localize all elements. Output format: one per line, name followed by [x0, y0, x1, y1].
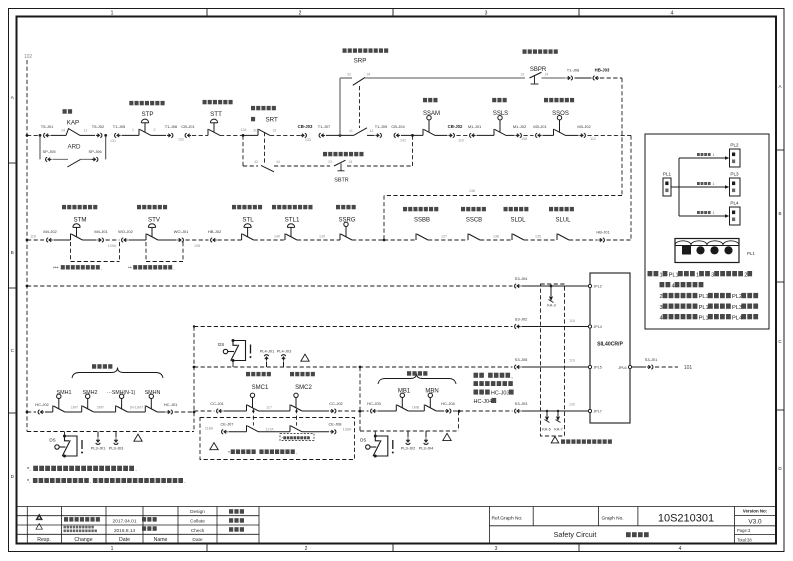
connector CB-J02 [448, 133, 454, 137]
svg-text:SSCB: SSCB [466, 218, 482, 224]
wire [326, 134, 354, 136]
connector WO-J02 [122, 238, 128, 242]
svg-text:SP-J05: SP-J05 [42, 149, 56, 154]
svg-text:CE-J07: CE-J07 [221, 421, 234, 426]
svg-text:Resp.: Resp. [37, 537, 51, 543]
svg-text:2MT: 2MT [97, 405, 105, 409]
svg-text:109A: 109A [108, 244, 117, 248]
svg-text:136: 136 [493, 235, 499, 239]
wire [378, 410, 397, 412]
wire row A entry [27, 134, 40, 136]
svg-text:1: 1 [713, 211, 715, 215]
wire [575, 77, 592, 79]
svg-text:SRP: SRP [354, 58, 367, 65]
note safety doors [27, 478, 186, 485]
svg-text:T5-J02: T5-J02 [92, 124, 105, 129]
connector SP-J06 [92, 157, 98, 161]
svg-text:HC-J03: HC-J03 [367, 401, 381, 406]
wire [600, 77, 622, 79]
wire [302, 410, 329, 412]
connector PL3-J03 [115, 432, 117, 438]
svg-text:PL1: PL1 [669, 272, 679, 278]
svg-text:SBTR: SBTR [334, 178, 348, 184]
contact CE front [247, 425, 259, 432]
hall door lock switch SMH2 [82, 394, 94, 412]
note triangle [443, 433, 451, 440]
svg-text:.: . [296, 451, 297, 456]
note no rear door [474, 373, 514, 380]
ARD bypass branch wires [39, 135, 41, 159]
svg-text:139: 139 [319, 235, 325, 239]
connector CB-J04 [394, 133, 400, 137]
svg-text:M4-J02: M4-J02 [43, 229, 57, 234]
wire [506, 134, 515, 136]
svg-text:PL3-J04: PL3-J04 [419, 446, 434, 451]
rear hall door lock switch MBN [424, 393, 436, 411]
wire [83, 239, 97, 241]
wire [80, 134, 95, 136]
svg-text:1: 1 [696, 272, 699, 278]
svg-text:HB-J03: HB-J03 [595, 68, 610, 73]
overspeed governor switch SSLS [494, 116, 506, 136]
wire to PL3 [679, 186, 725, 188]
svg-text:M1-J01: M1-J01 [468, 124, 482, 129]
wire [367, 134, 375, 136]
svg-text:2: 2 [305, 546, 308, 552]
svg-text:Name: Name [154, 537, 168, 543]
connector M3-J01 [536, 133, 542, 137]
svg-text:B: B [778, 211, 781, 216]
svg-text:PL1: PL1 [699, 315, 709, 321]
svg-text:110: 110 [458, 139, 464, 143]
svg-text:PL3: PL3 [730, 171, 739, 176]
wire bus vertical [678, 158, 680, 216]
svg-text:23: 23 [328, 160, 332, 164]
svg-text:HC-J01: HC-J01 [164, 402, 178, 407]
emergency stop switch STL (pit) [242, 224, 254, 240]
svg-text:STM: STM [73, 217, 86, 224]
svg-text:33: 33 [347, 73, 351, 77]
wire [175, 411, 195, 413]
svg-text:CC-J01: CC-J01 [210, 401, 224, 406]
wire left edge of car-door box [193, 327, 195, 412]
wire [27, 411, 36, 413]
bypass box STV [145, 242, 147, 262]
svg-text:KA-7: KA-7 [554, 428, 562, 432]
note grounding [27, 466, 137, 473]
svg-text:HC-J04: HC-J04 [441, 401, 455, 406]
svg-text:SIL40CR/P: SIL40CR/P [597, 342, 623, 348]
wire [384, 239, 416, 241]
svg-text:118A: 118A [205, 426, 214, 430]
svg-text:SMC2: SMC2 [295, 385, 312, 391]
plug PL1 [663, 178, 671, 196]
svg-text:1: 1 [713, 182, 715, 186]
socket PL2 [730, 149, 741, 167]
notes text in PL box [648, 271, 753, 278]
car door label rear [290, 372, 315, 376]
svg-text:(N-1)MT: (N-1)MT [130, 405, 144, 409]
svg-text:M1-J02: M1-J02 [513, 124, 527, 129]
svg-text:2: 2 [660, 294, 663, 300]
svg-text:KA-6: KA-6 [542, 428, 550, 432]
connector CB-J03 [300, 133, 306, 137]
wire drop 138 [621, 78, 623, 196]
title row check [36, 524, 42, 530]
svg-text:24: 24 [349, 160, 353, 164]
socket PL4 [730, 207, 741, 225]
emergency stop switch STL1 (pit entrance) [285, 224, 297, 240]
svg-text:3: 3 [495, 546, 498, 552]
connector CB-J01 [185, 133, 191, 137]
svg-text:4: 4 [671, 11, 674, 17]
wire [632, 366, 646, 368]
svg-text:112: 112 [590, 137, 596, 141]
wire [128, 411, 146, 413]
svg-text:101: 101 [684, 365, 693, 371]
svg-text:PL2: PL2 [732, 294, 742, 300]
svg-text:117A: 117A [265, 427, 274, 431]
svg-text:PL3: PL3 [732, 305, 742, 311]
rear hall door brace [378, 374, 456, 385]
svg-text:JPL6: JPL6 [618, 366, 626, 370]
svg-text:44: 44 [276, 160, 280, 164]
wire S3-J02 row [194, 326, 513, 328]
door switch DS front [55, 436, 77, 456]
svg-text:···SMH(N-1): ···SMH(N-1) [107, 390, 136, 396]
connector CC-J02 [330, 409, 336, 413]
svg-text:JPL4: JPL4 [594, 325, 602, 329]
svg-text:S3-J03: S3-J03 [515, 401, 528, 406]
pushbutton SBPR (cabinet neutral button) [530, 72, 542, 78]
mech link SRT [264, 132, 266, 164]
lower final limit switch SLDL [512, 234, 524, 241]
wire 138 drop to row B [383, 196, 385, 241]
small note box [280, 434, 314, 441]
svg-text:CB-J04: CB-J04 [391, 124, 405, 129]
svg-text:119: 119 [569, 359, 575, 363]
svg-text:SMHN: SMHN [145, 390, 161, 396]
svg-text:2016.8.14: 2016.8.14 [114, 528, 136, 534]
svg-text:102: 102 [24, 54, 33, 60]
svg-text:JPL2: JPL2 [594, 285, 602, 289]
note triangle [134, 434, 142, 441]
svg-text:PL3-J02: PL3-J02 [401, 446, 416, 451]
svg-text:SBPR: SBPR [530, 67, 547, 73]
connector PL4-J03 [281, 355, 285, 361]
svg-text:SMH2: SMH2 [83, 390, 98, 396]
svg-text:PL4: PL4 [730, 200, 739, 205]
car door lock switch SMC2 [290, 393, 302, 411]
svg-text:DS: DS [360, 438, 366, 443]
svg-text:PL1: PL1 [699, 305, 709, 311]
connector HC-J02 [38, 410, 44, 414]
svg-text:.: . [184, 479, 186, 485]
svg-text:*: * [228, 450, 230, 456]
bottom ruler ticks [206, 544, 208, 552]
door switch GS [223, 341, 245, 361]
wire [524, 239, 557, 241]
svg-text:1MB: 1MB [412, 405, 420, 409]
svg-text:Ref.Graph No:: Ref.Graph No: [492, 516, 523, 522]
svg-text:108: 108 [194, 244, 200, 248]
svg-text:*.: *. [27, 467, 31, 473]
wire gray [542, 77, 566, 79]
svg-text:11: 11 [84, 128, 88, 132]
svg-text:41: 41 [349, 129, 353, 133]
svg-text:PL1: PL1 [699, 294, 709, 300]
svg-text:M3-J01: M3-J01 [533, 124, 547, 129]
wire S3-J03 row [459, 410, 513, 412]
wire [65, 411, 82, 413]
wire [243, 134, 258, 136]
wire gray [81, 158, 94, 160]
svg-text:MB1: MB1 [398, 388, 411, 394]
wire to PL2 [679, 157, 725, 159]
svg-text:T1-J08: T1-J08 [567, 68, 580, 73]
svg-text:34: 34 [367, 73, 371, 77]
wire [94, 411, 116, 413]
wire [254, 239, 285, 241]
connector PL3-J04 [425, 431, 427, 438]
contact ARD (rescue device) [67, 159, 80, 167]
svg-text:V3.0: V3.0 [748, 518, 762, 525]
svg-text:SSAM: SSAM [423, 111, 440, 117]
wire [158, 239, 177, 241]
svg-text:SP-J06: SP-J06 [88, 149, 102, 154]
wire [360, 410, 369, 412]
relay contacts KA-6 KA-7 (brake release) [546, 410, 548, 412]
svg-text:PL3-J03: PL3-J03 [109, 446, 124, 451]
svg-text:140: 140 [274, 235, 280, 239]
svg-text:116: 116 [569, 319, 575, 323]
wire [259, 410, 291, 412]
inspection switch SRT contact 2 [261, 165, 274, 171]
connector PL3-J02 [407, 431, 409, 438]
svg-text:Design: Design [190, 509, 205, 515]
note triangle [301, 354, 309, 361]
svg-text:S3-J02: S3-J02 [515, 316, 528, 321]
svg-text:DS: DS [49, 438, 55, 443]
connector CE-J08 [330, 430, 336, 434]
wire [186, 239, 209, 241]
connector S3-J05 [515, 365, 521, 369]
svg-text:GS: GS [218, 342, 225, 347]
PL configuration box [645, 134, 769, 329]
wire [218, 239, 242, 241]
svg-text:M3-J02: M3-J02 [577, 124, 591, 129]
connector drawing PL1 terminal block [675, 239, 739, 263]
wire right drop to row B end [630, 135, 632, 240]
svg-text:T5-J01: T5-J01 [41, 124, 54, 129]
connector HB-J01 [598, 238, 604, 242]
wire [435, 134, 448, 136]
connector T1-J08 [566, 76, 572, 80]
run switch SRP contact 1 [353, 77, 365, 85]
pin JPL2 [588, 284, 591, 287]
svg-text:Graph No.: Graph No. [602, 516, 624, 522]
svg-text:133: 133 [305, 138, 311, 142]
connector M1-J01 [470, 133, 476, 137]
svg-text:JPL7: JPL7 [594, 410, 602, 414]
svg-text:B: B [11, 250, 14, 255]
wire [51, 134, 67, 136]
svg-text:SSRG: SSRG [338, 218, 355, 224]
svg-text:Safety Circuit: Safety Circuit [554, 530, 597, 539]
svg-text:1: 1 [660, 272, 663, 278]
wire [229, 431, 247, 433]
right ruler ticks [776, 149, 784, 151]
svg-text:PL4-J01: PL4-J01 [260, 348, 275, 353]
hall door lock switch SMH1 [53, 394, 65, 412]
svg-text:CB-J03: CB-J03 [298, 124, 313, 129]
rear door dashed box [359, 367, 361, 431]
wire bypass horizontal [243, 165, 258, 167]
svg-text:Collate: Collate [190, 519, 205, 525]
svg-text:STP: STP [141, 111, 153, 118]
svg-text:PL1: PL1 [663, 171, 672, 176]
connector T1-J05 [115, 133, 121, 137]
connector S3-J03 [515, 409, 521, 413]
wire row A to corner [588, 134, 632, 136]
counterweight buffer switch SSBB [416, 234, 428, 241]
svg-text:T1-J06: T1-J06 [165, 124, 178, 129]
wire [566, 134, 579, 136]
svg-text:***: *** [53, 266, 59, 272]
wire to node 101 [655, 366, 678, 368]
svg-text:Date: Date [119, 537, 130, 543]
svg-text:Version No:: Version No: [743, 509, 768, 514]
connector S3-J04 [515, 284, 521, 288]
svg-text:Total:38: Total:38 [737, 537, 752, 542]
svg-text:PL1: PL1 [747, 251, 755, 256]
wire [302, 431, 329, 433]
wire [122, 134, 140, 136]
svg-text:SSOS: SSOS [552, 111, 569, 117]
connector S3-J01 [647, 365, 653, 369]
svg-text:CB-J02: CB-J02 [448, 124, 463, 129]
connector WO-J01 [177, 238, 183, 242]
svg-text:4: 4 [660, 315, 663, 321]
svg-text:1: 1 [111, 546, 114, 552]
wire [106, 239, 120, 241]
svg-text:STV: STV [148, 217, 161, 224]
svg-text:CB-J01: CB-J01 [181, 124, 195, 129]
connector HB-J02 [211, 238, 217, 242]
wire gray [53, 158, 69, 160]
svg-text:WO-J01: WO-J01 [174, 229, 189, 234]
svg-text:120: 120 [569, 403, 575, 407]
wire [453, 410, 459, 412]
handwheel switch STV [146, 224, 158, 240]
svg-text:CE-J08: CE-J08 [329, 421, 342, 426]
wire SRT bypass down [242, 135, 244, 166]
svg-text:132: 132 [178, 138, 184, 142]
svg-text:PL4-J03: PL4-J03 [277, 348, 292, 353]
svg-text:131: 131 [110, 139, 116, 143]
left ruler ticks [9, 162, 17, 164]
svg-text:2: 2 [154, 128, 156, 132]
pin JPL5 [588, 365, 591, 368]
svg-text:Check: Check [191, 528, 205, 534]
pin JPL7 [588, 409, 591, 412]
socket PL3 [730, 178, 741, 196]
relay contact KA-3 [550, 286, 552, 296]
svg-text:Change: Change [74, 537, 92, 543]
svg-text:SMC1: SMC1 [252, 385, 269, 391]
rope brake switch SSRG [340, 222, 352, 240]
wire [259, 431, 291, 433]
svg-text:HC-J03: HC-J03 [491, 391, 510, 397]
svg-text:SRT: SRT [266, 117, 278, 124]
emergency stop switch STP [139, 119, 151, 135]
connector PL3-J01 [97, 432, 99, 438]
wire [192, 134, 208, 136]
wire [524, 134, 534, 136]
svg-text:S3-J04: S3-J04 [515, 276, 528, 281]
wire [408, 410, 424, 412]
connector HC-J01 [166, 410, 172, 414]
pin JPL4 [588, 325, 591, 328]
svg-text:14: 14 [61, 128, 65, 132]
svg-text:S3-J05: S3-J05 [515, 357, 528, 362]
wire [270, 134, 300, 136]
svg-text:24: 24 [545, 73, 549, 77]
svg-text:KA-3: KA-3 [547, 304, 555, 308]
wire [220, 134, 243, 136]
bypass box STM [70, 242, 72, 262]
svg-text:2: 2 [299, 11, 302, 17]
svg-text:SSBB: SSBB [414, 218, 430, 224]
svg-text:HC-J02: HC-J02 [35, 402, 49, 407]
connector T1-J09 [375, 133, 381, 137]
wire [347, 165, 413, 167]
wire [522, 366, 591, 368]
svg-text:134: 134 [241, 128, 247, 132]
wire [477, 134, 495, 136]
run switch SRP contact 2 [354, 128, 368, 136]
second car door contact box (CE) [200, 418, 355, 460]
wire 138 horizontal [384, 195, 622, 197]
svg-text:117: 117 [266, 406, 272, 410]
upper final limit switch SLUL [557, 234, 569, 241]
wire [457, 134, 468, 136]
svg-text:138: 138 [469, 189, 475, 193]
connector M4-J01 [97, 238, 103, 242]
wire [401, 134, 423, 136]
svg-text:STL1: STL1 [285, 217, 300, 224]
dashed box KA relays [541, 284, 565, 436]
wire to PL4 [679, 215, 725, 217]
svg-text:Page:3: Page:3 [737, 528, 751, 533]
svg-text:HB-J01: HB-J01 [596, 229, 610, 234]
wire [151, 134, 166, 136]
connector SP-J05 [46, 157, 52, 161]
wire [338, 410, 360, 412]
safety gear switch SSAM [423, 116, 435, 136]
connector HC-J03 [371, 409, 377, 413]
svg-text:108: 108 [521, 137, 527, 141]
svg-text:1: 1 [111, 11, 114, 17]
connector HC-J04 [445, 409, 451, 413]
svg-text:SLDL: SLDL [510, 218, 526, 224]
svg-text:WO-J02: WO-J02 [118, 229, 133, 234]
car buffer switch SSCB [468, 234, 480, 241]
svg-text:137: 137 [441, 235, 447, 239]
wire gray [365, 77, 525, 79]
connector T5-J02 [96, 133, 102, 137]
svg-text:MBN: MBN [425, 388, 438, 394]
